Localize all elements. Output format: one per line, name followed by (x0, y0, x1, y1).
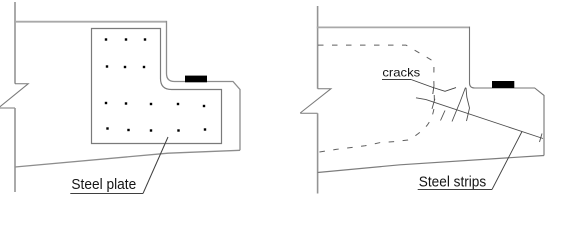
left bearing pad (185, 76, 207, 83)
right concrete step and right edge (470, 27, 545, 156)
right beam top edge (317, 26, 470, 28)
strip end tick left (432, 99, 435, 109)
crack line short parallel (441, 111, 446, 121)
strip end tick right (540, 134, 543, 143)
anchor dots row 3 (105, 102, 205, 107)
left beam top edge (14, 21, 167, 23)
left concrete step and right edge (167, 21, 241, 150)
anchor dots row 2 (106, 65, 145, 68)
svg-text:cracks: cracks (382, 66, 420, 79)
right column break symbol (Z) (300, 89, 331, 114)
svg-text:Steel strips: Steel strips (419, 175, 486, 191)
tick on cracks leader (433, 87, 434, 95)
right bearing pad (492, 81, 514, 88)
right column face line (lower part) (317, 113, 319, 193)
anchor dots row 4 (106, 127, 206, 131)
right beam bottom slanted edge (318, 156, 544, 173)
left beam bottom slanted edge (15, 150, 240, 167)
label cracks underline (382, 79, 411, 81)
right column face line (upper part) (317, 6, 319, 89)
left column break symbol (Z) (0, 84, 28, 109)
anchor dots row 1 (105, 38, 146, 40)
label Steel strips leader (492, 132, 522, 190)
left column face line (lower part) (14, 108, 16, 192)
crack line wavy (466, 88, 470, 121)
steel plate outline (92, 29, 222, 144)
label Steel plate leader (143, 137, 168, 194)
svg-text:Steel plate: Steel plate (71, 177, 136, 193)
dashed crack outline (318, 45, 435, 152)
label cracks leader (411, 80, 456, 92)
crack line steep (452, 88, 466, 122)
steel strip diagonal (416, 98, 543, 139)
left column face line (upper part) (14, 2, 16, 84)
label Steel plate underline (70, 193, 143, 195)
label Steel strips underline (418, 189, 492, 191)
